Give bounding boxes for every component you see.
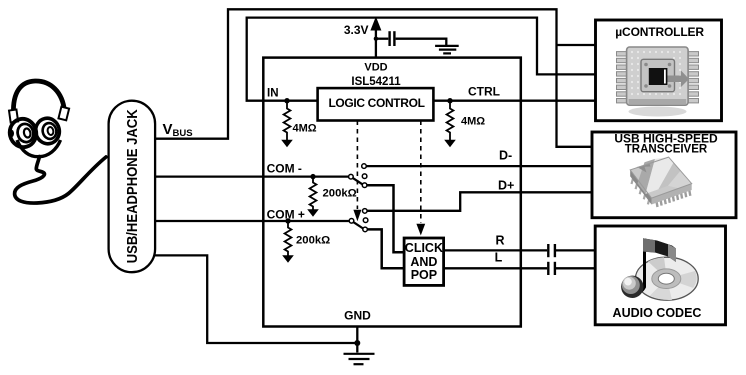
svg-text:POP: POP bbox=[411, 268, 437, 282]
svg-text:COM -: COM - bbox=[267, 161, 302, 175]
svg-text:D+: D+ bbox=[498, 179, 514, 193]
svg-text:TRANSCEIVER: TRANSCEIVER bbox=[625, 144, 708, 156]
svg-text:CTRL: CTRL bbox=[468, 85, 500, 99]
svg-text:COM +: COM + bbox=[267, 208, 305, 222]
svg-text:CLICK: CLICK bbox=[405, 241, 443, 255]
svg-text:R: R bbox=[495, 233, 504, 247]
svg-text:4MΩ: 4MΩ bbox=[461, 116, 485, 128]
svg-text:µCONTROLLER: µCONTROLLER bbox=[615, 25, 704, 39]
svg-text:D-: D- bbox=[499, 149, 512, 163]
svg-text:VDD: VDD bbox=[364, 62, 387, 74]
svg-text:IN: IN bbox=[267, 88, 279, 100]
svg-text:200kΩ: 200kΩ bbox=[323, 188, 357, 200]
svg-text:4MΩ: 4MΩ bbox=[293, 123, 317, 135]
svg-text:GND: GND bbox=[344, 309, 371, 323]
svg-text:L: L bbox=[495, 251, 503, 265]
svg-text:AUDIO CODEC: AUDIO CODEC bbox=[613, 306, 702, 320]
svg-text:200kΩ: 200kΩ bbox=[296, 235, 330, 247]
svg-text:ISL54211: ISL54211 bbox=[351, 76, 401, 88]
svg-text:USB/HEADPHONE JACK: USB/HEADPHONE JACK bbox=[124, 109, 141, 263]
svg-text:AND: AND bbox=[410, 255, 437, 269]
svg-text:LOGIC CONTROL: LOGIC CONTROL bbox=[328, 96, 424, 110]
svg-text:3.3V: 3.3V bbox=[344, 23, 369, 37]
